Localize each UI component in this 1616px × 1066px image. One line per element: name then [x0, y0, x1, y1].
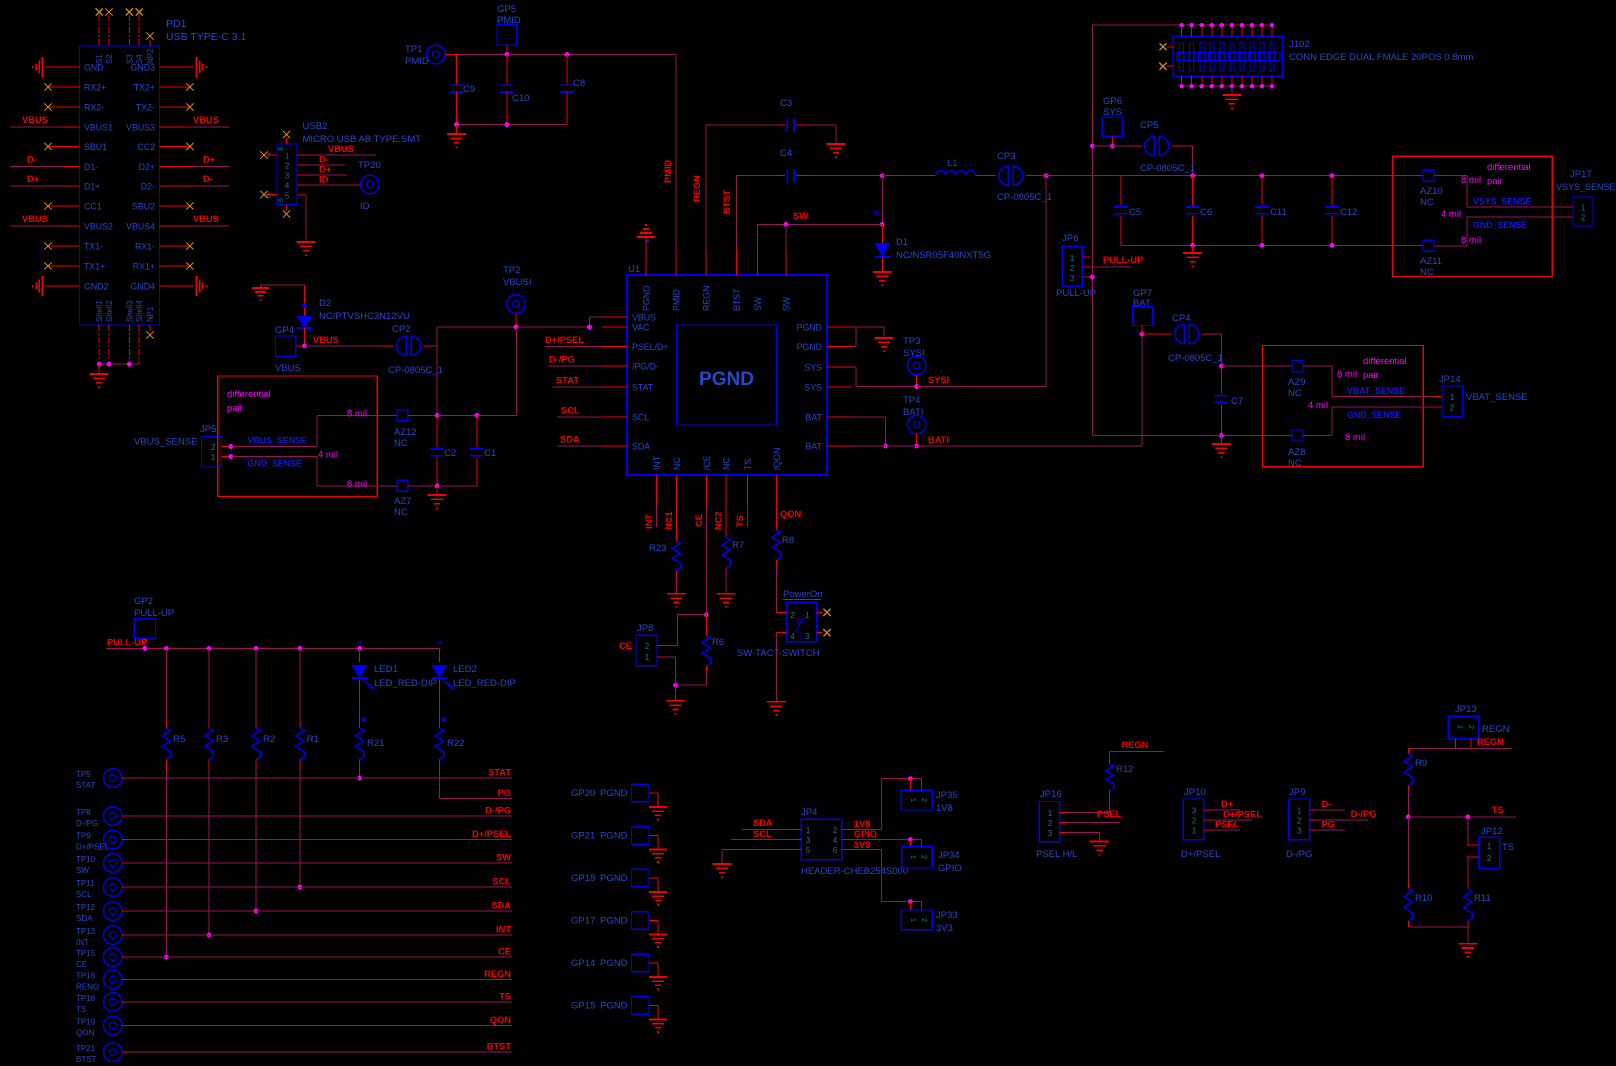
- svg-text:BAT: BAT: [806, 442, 823, 452]
- PD1 right pin CC2 no-connect: [160, 143, 194, 150]
- wire GND bottom entry: [1092, 435, 1292, 437]
- svg-text:pair: pair: [1363, 370, 1379, 381]
- svg-text:SW-TACT-SWITCH: SW-TACT-SWITCH: [737, 648, 820, 659]
- svg-text:1: 1: [1192, 827, 1196, 836]
- svg-text:CE: CE: [498, 947, 511, 957]
- test point TP21 BTST: [76, 1043, 122, 1064]
- svg-text:NC: NC: [722, 457, 732, 470]
- svg-text:R1: R1: [307, 734, 319, 745]
- svg-text:R2: R2: [263, 734, 275, 745]
- ground of R6: [666, 685, 685, 714]
- USB2 pin numbers: [278, 147, 290, 202]
- svg-text:VBAT_SENSE: VBAT_SENSE: [1466, 392, 1528, 403]
- svg-text:RENG: RENG: [76, 983, 99, 992]
- PD1 left pin RX2- no-connect: [44, 103, 79, 110]
- net tie GP20 PGND: [571, 784, 658, 807]
- svg-text:CE: CE: [619, 641, 632, 651]
- wire R1 to row: [297, 771, 302, 890]
- svg-text:AZ12: AZ12: [394, 427, 417, 438]
- svg-text:NP1: NP1: [146, 307, 155, 322]
- wire D-/PG from JP9 pin2: [1317, 809, 1376, 820]
- svg-text:VBUSI: VBUSI: [503, 277, 532, 288]
- resistor AZ12 NC: [394, 410, 437, 449]
- wire VBUS vertical to C2 bus: [436, 327, 438, 415]
- wire SCL to U1: [557, 406, 602, 418]
- svg-text:VSYS_SENSE: VSYS_SENSE: [1473, 197, 1531, 207]
- connector JP4 header: [790, 807, 908, 877]
- rule box differential pair VBUS: [218, 376, 378, 497]
- wire QON row: [122, 1015, 512, 1026]
- svg-text:GP6: GP6: [1103, 96, 1122, 107]
- wire PGND bracket to ground: [852, 327, 884, 347]
- svg-text:SCL: SCL: [76, 890, 92, 899]
- svg-text:NC2: NC2: [714, 511, 724, 530]
- svg-text:1: 1: [285, 152, 289, 161]
- capacitor C10: [500, 54, 529, 124]
- svg-text:PGND: PGND: [600, 1001, 628, 1012]
- svg-text:Shell2: Shell2: [105, 300, 114, 322]
- svg-text:differential: differential: [1363, 356, 1407, 367]
- svg-text:C7: C7: [1231, 396, 1243, 407]
- svg-text:8: 8: [278, 147, 285, 151]
- svg-text:8 mil: 8 mil: [347, 479, 367, 490]
- svg-text:2: 2: [920, 798, 929, 802]
- svg-text:CP-0805C_1: CP-0805C_1: [1168, 353, 1223, 364]
- resistor R6: [673, 615, 724, 688]
- svg-text:CP5: CP5: [1140, 120, 1158, 131]
- svg-text:PGND: PGND: [797, 342, 822, 352]
- svg-text:VSYS_SENSE: VSYS_SENSE: [1556, 182, 1616, 192]
- ground of R23: [667, 594, 686, 607]
- svg-text:REGN: REGN: [1482, 724, 1510, 735]
- ground of GP14: [649, 977, 667, 990]
- resistor AZ9 NC: [1288, 361, 1305, 399]
- switch S1 PowerOn: [737, 589, 823, 659]
- svg-text:C9: C9: [463, 84, 475, 95]
- svg-text:SW: SW: [753, 296, 763, 311]
- svg-text:AZ7: AZ7: [394, 496, 411, 507]
- svg-text:VBUS_SENSE: VBUS_SENSE: [134, 437, 197, 448]
- ground of R7: [717, 594, 736, 607]
- jumper CP5: [1132, 120, 1195, 176]
- svg-text:5: 5: [806, 846, 811, 855]
- svg-text:D+: D+: [203, 155, 216, 165]
- wire VBUS left row3: [10, 115, 80, 127]
- svg-text:2: 2: [833, 826, 837, 835]
- svg-text:SYSI: SYSI: [928, 375, 949, 385]
- svg-text:3: 3: [1297, 827, 1301, 836]
- PD1 bottom shell pin wires: [97, 325, 139, 367]
- wire VBAT top entry: [1221, 365, 1292, 367]
- svg-text:TX1+: TX1+: [84, 262, 105, 272]
- node C2 top junction: [435, 413, 479, 418]
- svg-text:GND4: GND4: [131, 282, 156, 292]
- svg-text:GPIO: GPIO: [854, 829, 877, 839]
- wire JP8 pin2 to CE: [664, 615, 706, 646]
- resistor R1: [296, 648, 319, 770]
- capacitor C5: [1114, 176, 1141, 246]
- wire SW net: [758, 176, 885, 250]
- svg-text:VBUS2: VBUS2: [84, 222, 113, 232]
- svg-text:SYS: SYS: [804, 383, 822, 393]
- svg-text:BATI: BATI: [928, 435, 949, 445]
- svg-text:TS: TS: [499, 992, 511, 1002]
- wire D-/PG to U1: [548, 355, 602, 367]
- svg-text:1: 1: [1487, 842, 1491, 851]
- svg-text:C8: C8: [573, 78, 585, 89]
- wire D+/PSEL row: [122, 829, 512, 840]
- wire SW row: [122, 853, 512, 864]
- resistor R12: [1105, 751, 1133, 812]
- svg-text:NC: NC: [1420, 197, 1434, 208]
- svg-text:QON: QON: [76, 1028, 94, 1037]
- wire BATI horizontal: [886, 332, 1145, 446]
- wire VBUS left row8: [10, 214, 80, 226]
- svg-text:3: 3: [1070, 274, 1074, 283]
- svg-text:R22: R22: [447, 738, 464, 749]
- net tie GP4 VBUS: [275, 325, 305, 374]
- PD1 right pin TX2- no-connect: [160, 103, 194, 110]
- svg-text:ID: ID: [319, 175, 329, 185]
- wire D- from USB2 pin2: [297, 155, 345, 166]
- resistor R7: [714, 500, 745, 594]
- svg-text:S4: S4: [135, 54, 144, 64]
- svg-text:VBUS: VBUS: [193, 115, 219, 125]
- label differential pair box1: [1487, 162, 1531, 187]
- svg-text:CE: CE: [694, 514, 704, 527]
- PD1 top pin S4: [136, 8, 143, 46]
- svg-text:LED_RED-DIP: LED_RED-DIP: [453, 678, 516, 689]
- ground of C9 C10 C8: [447, 125, 466, 148]
- svg-text:QON: QON: [490, 1015, 511, 1025]
- svg-text:PULL-UP: PULL-UP: [107, 638, 147, 648]
- svg-text:R10: R10: [1415, 893, 1432, 904]
- diode D2: [297, 285, 410, 346]
- svg-text:BAT: BAT: [806, 413, 823, 423]
- svg-text:pair: pair: [227, 403, 243, 414]
- resistor R23: [649, 500, 681, 594]
- svg-text:8 mil: 8 mil: [347, 409, 367, 420]
- svg-text:C4: C4: [780, 148, 792, 159]
- test point TP8 D-/PG: [76, 807, 122, 828]
- svg-text:7: 7: [267, 151, 271, 160]
- svg-text:SDA: SDA: [632, 442, 650, 452]
- svg-text:GP17: GP17: [571, 916, 595, 927]
- net tie GP21 PGND: [571, 827, 658, 850]
- connector J102 body: [1173, 36, 1283, 76]
- svg-text:TP21: TP21: [76, 1044, 96, 1053]
- svg-text:QON: QON: [780, 509, 801, 519]
- svg-text:LED2: LED2: [453, 664, 477, 675]
- node SYS junction at CP3: [1044, 173, 1049, 178]
- U1 top pin stubs: [646, 250, 786, 275]
- PD1 top pin NP2: [146, 32, 153, 46]
- svg-text:6: 6: [278, 198, 285, 202]
- svg-text:TP11: TP11: [76, 879, 95, 888]
- PD1 top pin names rotated: [95, 49, 155, 64]
- svg-text:VBUS: VBUS: [22, 115, 48, 125]
- svg-text:R5: R5: [173, 734, 185, 745]
- svg-text:1: 1: [805, 611, 809, 620]
- wire SYSI horizontal: [917, 386, 1046, 388]
- wire USB2 pin5 to ground: [297, 195, 306, 242]
- svg-text:BTST: BTST: [487, 1042, 512, 1052]
- svg-text:8 mil: 8 mil: [1461, 175, 1481, 186]
- label differential pair box2: [1363, 356, 1407, 381]
- wire GND_SENSE to JP14: [1303, 400, 1442, 443]
- svg-text:GP15: GP15: [571, 1001, 595, 1012]
- svg-text:D+: D+: [319, 165, 332, 175]
- svg-text:JP6: JP6: [1062, 233, 1078, 244]
- svg-text:4: 4: [833, 836, 838, 845]
- svg-text:2: 2: [790, 611, 794, 620]
- test point TP9 D+/PSEL: [76, 830, 122, 851]
- ground of D1: [873, 272, 892, 285]
- svg-text:RX2+: RX2+: [84, 83, 106, 93]
- svg-text:D2+: D2+: [139, 162, 155, 172]
- test point TP4 BATI: [903, 395, 949, 448]
- wire BAT bracket: [852, 417, 888, 448]
- svg-text:1: 1: [909, 798, 918, 802]
- svg-text:1: 1: [1297, 807, 1301, 816]
- svg-text:TP1: TP1: [405, 44, 422, 55]
- PD1 pin names: [84, 63, 155, 292]
- svg-text:PULL-UP: PULL-UP: [1103, 255, 1143, 265]
- svg-text:GP21: GP21: [571, 831, 595, 842]
- svg-text:R3: R3: [216, 734, 228, 745]
- svg-text:1: 1: [1450, 393, 1454, 402]
- net tie GP5 PMID: [497, 4, 521, 45]
- svg-text:differential: differential: [1487, 162, 1531, 173]
- wire TS net stub: [735, 500, 748, 527]
- wire SDA to JP4: [742, 818, 790, 830]
- svg-text:PD1: PD1: [166, 18, 187, 30]
- wire TS row right: [1408, 805, 1516, 819]
- svg-text:SDA: SDA: [753, 818, 773, 828]
- wire VBUS_SENSE: [228, 415, 317, 449]
- resistor R21: [355, 721, 384, 780]
- wire JP8 pin1 to ground: [664, 657, 676, 685]
- capacitor C12: [1325, 176, 1357, 246]
- net tie GP15 PGND: [571, 997, 658, 1020]
- svg-text:D+/PSEL: D+/PSEL: [1181, 849, 1220, 860]
- svg-text:VBUS: VBUS: [328, 144, 354, 154]
- test point TP12 SDA: [76, 902, 122, 923]
- svg-text:INT: INT: [652, 455, 662, 470]
- node SW junction: [880, 173, 885, 178]
- PD1 left pin CC1 no-connect: [44, 202, 79, 209]
- test point TP15 CE: [76, 948, 122, 969]
- svg-text:JP5: JP5: [200, 424, 216, 435]
- svg-text:C5: C5: [1129, 207, 1141, 218]
- ground of switch: [767, 702, 786, 715]
- svg-text:4 mil: 4 mil: [1441, 209, 1461, 220]
- svg-text:CC1: CC1: [84, 202, 102, 212]
- rule box differential pair VSYS: [1392, 156, 1552, 276]
- svg-text:SDA: SDA: [560, 435, 580, 445]
- PD1 right pin SBU2 no-connect: [160, 202, 194, 209]
- jumper JP33 3V3: [901, 910, 957, 934]
- capacitor C3: [706, 98, 836, 144]
- svg-text:REGN: REGN: [692, 175, 702, 202]
- svg-text:/CE: /CE: [702, 455, 712, 470]
- connector JP10: [1181, 787, 1220, 860]
- svg-text:1: 1: [909, 918, 918, 922]
- svg-text:3: 3: [805, 632, 809, 641]
- test point TP16 RENG: [76, 970, 122, 991]
- wire VBAT_SENSE to JP14: [1303, 366, 1442, 396]
- svg-text:3: 3: [285, 172, 289, 181]
- svg-text:CP4: CP4: [1172, 313, 1190, 324]
- net tie GP6 SYS: [1102, 96, 1123, 148]
- U1 bottom pin stubs: [657, 475, 777, 500]
- svg-text:D+: D+: [1221, 799, 1234, 809]
- svg-text:2: 2: [920, 855, 929, 859]
- svg-text:GP4: GP4: [275, 325, 294, 336]
- svg-text:NC: NC: [394, 507, 408, 518]
- svg-text:JP17: JP17: [1570, 169, 1592, 180]
- ground of D2: [252, 285, 305, 300]
- rule box differential pair VBAT: [1263, 346, 1424, 467]
- svg-text:PMID: PMID: [497, 15, 521, 26]
- U1 bottom pin names: [652, 448, 782, 470]
- svg-text:1: 1: [1581, 204, 1585, 213]
- svg-text:REGN: REGN: [702, 286, 712, 311]
- PD1 right pin RX1- no-connect: [160, 242, 194, 249]
- USB2 pin6 no-connect: [260, 191, 277, 200]
- svg-text:D+/PSEL: D+/PSEL: [472, 829, 511, 839]
- svg-text:SCL: SCL: [561, 406, 580, 416]
- svg-text:PGND: PGND: [600, 873, 628, 884]
- capacitor C8: [560, 54, 585, 124]
- svg-text:INT: INT: [76, 938, 89, 947]
- wire VBUS from USB2 pin1: [297, 144, 376, 155]
- svg-text:differential: differential: [227, 389, 271, 400]
- svg-text:RX1+: RX1+: [133, 262, 155, 272]
- svg-text:2: 2: [1297, 817, 1301, 826]
- svg-text:PSEL: PSEL: [1215, 820, 1240, 830]
- svg-text:3: 3: [1048, 829, 1052, 838]
- svg-text:PGND: PGND: [600, 916, 628, 927]
- wire D- left: [10, 155, 80, 167]
- svg-text:2: 2: [1581, 214, 1585, 223]
- wire 8mil top box3: [317, 409, 397, 420]
- svg-text:SYS: SYS: [1103, 107, 1122, 118]
- svg-text:PowerOn: PowerOn: [783, 589, 823, 600]
- capacitor C9: [450, 54, 475, 124]
- svg-text:2: 2: [1450, 404, 1454, 413]
- svg-text:4 mil: 4 mil: [318, 450, 338, 461]
- svg-text:D1-: D1-: [84, 162, 98, 172]
- svg-text:STAT: STAT: [76, 781, 95, 790]
- jumper JP13 REGN: [1448, 704, 1509, 749]
- diode D1: [874, 224, 991, 272]
- label differential pair box3: [227, 389, 271, 414]
- wire REGN row: [122, 969, 512, 980]
- svg-text:J102: J102: [1289, 39, 1310, 50]
- PD1 left pin TX1+ no-connect: [44, 262, 79, 269]
- svg-text:NC: NC: [1288, 388, 1302, 399]
- svg-text:PGND: PGND: [600, 788, 628, 799]
- svg-text:TP8: TP8: [76, 808, 91, 817]
- svg-text:CP-0805C_1: CP-0805C_1: [997, 192, 1052, 203]
- svg-text:PGND: PGND: [600, 958, 628, 969]
- svg-text:6: 6: [833, 846, 837, 855]
- PD1 top pin S1: [96, 8, 103, 46]
- resistor R5: [162, 648, 185, 770]
- wire R2 to row: [254, 771, 259, 914]
- ground of GP20: [649, 807, 667, 820]
- svg-text:PULL-UP: PULL-UP: [134, 608, 174, 619]
- svg-text:TP3: TP3: [903, 336, 920, 347]
- capacitor C2: [430, 415, 456, 486]
- svg-text:R9: R9: [1415, 758, 1427, 769]
- svg-text:U1: U1: [628, 264, 640, 275]
- wire D-/PG row: [122, 806, 512, 817]
- wire PSEL from JP10 pin1: [1211, 820, 1240, 831]
- svg-text:TX2-: TX2-: [136, 103, 155, 113]
- svg-text:Shell3: Shell3: [125, 300, 134, 322]
- ground USB2: [297, 242, 316, 255]
- svg-text:PGND: PGND: [699, 369, 754, 390]
- ground of C2: [428, 486, 447, 508]
- wire GND_SENSE to JP17: [1434, 209, 1573, 246]
- wire SDA row: [122, 901, 512, 912]
- wire PG row: [439, 788, 512, 799]
- net tie GP7 BAT: [1133, 288, 1153, 334]
- svg-text:RX2-: RX2-: [84, 103, 104, 113]
- svg-text:SYS: SYS: [804, 363, 822, 373]
- svg-text:R21: R21: [367, 738, 384, 749]
- svg-text:D-: D-: [319, 155, 329, 165]
- svg-text:C2: C2: [444, 448, 456, 459]
- wire PMID top rail: [445, 45, 676, 57]
- LED LED1: [352, 640, 437, 722]
- svg-text:TX1-: TX1-: [84, 242, 103, 252]
- PD1 bottom pin NP1: [146, 325, 153, 339]
- svg-text:GP20: GP20: [571, 788, 595, 799]
- ground of C3: [827, 144, 846, 157]
- svg-text:GND_SENSE: GND_SENSE: [1473, 220, 1527, 230]
- U1 thermal pad PGND: [677, 325, 777, 425]
- svg-text:D-/PG: D-/PG: [549, 355, 575, 365]
- svg-text:4 mil: 4 mil: [1308, 400, 1328, 411]
- U1 top pin names: [642, 286, 792, 311]
- svg-text:SBU1: SBU1: [84, 142, 107, 152]
- inductor L1: [882, 158, 995, 176]
- svg-text:TP10: TP10: [76, 855, 96, 864]
- svg-text:D-/PG: D-/PG: [485, 806, 511, 816]
- svg-text:/QON: /QON: [772, 448, 782, 470]
- svg-text:TS: TS: [76, 1005, 86, 1014]
- svg-text:D+/PSEL: D+/PSEL: [545, 335, 584, 345]
- J102 bottom pins: [1180, 76, 1275, 88]
- svg-text:NC1: NC1: [664, 511, 674, 530]
- ground of U1 PGND: [875, 338, 894, 351]
- svg-text:TP2: TP2: [503, 265, 520, 276]
- svg-text:4: 4: [285, 182, 290, 191]
- svg-text:3: 3: [1192, 807, 1196, 816]
- svg-text:JP35: JP35: [936, 790, 958, 801]
- ground of JP4: [713, 864, 732, 877]
- svg-text:6: 6: [267, 191, 271, 200]
- svg-text:JP34: JP34: [938, 850, 960, 861]
- svg-text:SCL: SCL: [632, 413, 649, 423]
- svg-text:C12: C12: [1340, 207, 1357, 218]
- jumper JP34 GPIO: [902, 847, 962, 874]
- wire D- right: [160, 174, 230, 186]
- svg-text:NP2: NP2: [146, 49, 155, 64]
